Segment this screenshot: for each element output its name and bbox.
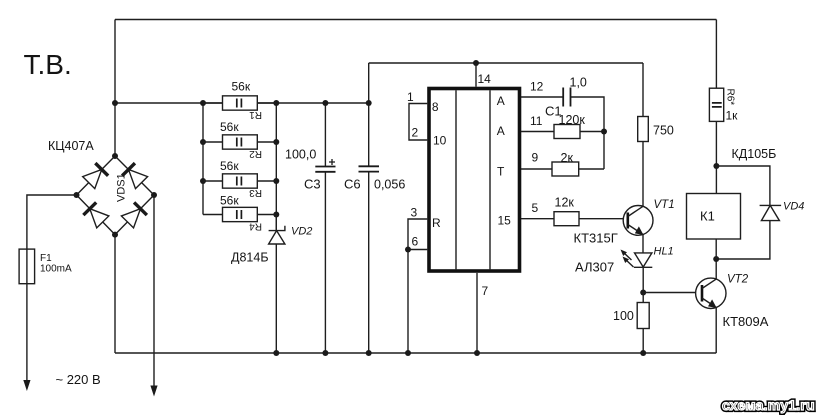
svg-text:R3: R3 — [249, 187, 262, 198]
svg-text:КТ809А: КТ809А — [723, 314, 769, 329]
svg-text:11: 11 — [530, 114, 543, 128]
svg-text:0,056: 0,056 — [374, 178, 405, 192]
resistor 100 — [613, 293, 649, 354]
svg-text:100mA: 100mA — [40, 264, 72, 275]
diode bridge top-left — [82, 163, 108, 189]
svg-text:R2: R2 — [249, 148, 262, 159]
node pin6 junction — [405, 247, 411, 253]
diode bridge bottom-right — [121, 202, 147, 228]
svg-text:КД105Б: КД105Б — [732, 147, 777, 161]
resistor R1 56к — [203, 80, 276, 120]
LED emission arrows — [623, 252, 634, 267]
wire bridge right AC terminal to mains arrow — [153, 195, 155, 386]
svg-text:9: 9 — [532, 151, 539, 165]
resistor 2к on pin 9 — [521, 151, 604, 177]
svg-text:2к: 2к — [561, 151, 574, 165]
svg-text:100: 100 — [613, 309, 634, 323]
node bridge left vertex — [74, 192, 80, 198]
resistor 750 — [638, 63, 674, 206]
svg-text:10: 10 — [433, 134, 447, 148]
svg-text:A: A — [497, 94, 505, 108]
collector lead — [702, 279, 716, 288]
wire zener to ground bus — [275, 244, 277, 353]
resistor R6* 1к — [709, 20, 738, 167]
svg-text:~ 220 В: ~ 220 В — [56, 372, 101, 387]
svg-text:VT2: VT2 — [727, 274, 749, 286]
svg-text:R1: R1 — [249, 109, 262, 120]
base bar — [701, 285, 704, 302]
svg-text:750: 750 — [653, 124, 674, 138]
svg-text:КТ315Г: КТ315Г — [574, 231, 618, 246]
svg-text:15: 15 — [498, 214, 512, 228]
node relay bottom junction — [713, 256, 719, 262]
svg-text:схема.my1.ru: схема.my1.ru — [722, 397, 815, 413]
capacitor C1 1,0 on pin 12 — [521, 76, 604, 170]
svg-text:Д814Б: Д814Б — [231, 251, 269, 265]
node R3 right — [273, 178, 279, 184]
wire pins 1-2 bracket — [409, 104, 427, 141]
emitter arrow — [635, 226, 644, 235]
node C3 ground — [322, 350, 328, 356]
wire resistor column right — [275, 103, 277, 231]
svg-text:12к: 12к — [555, 196, 575, 210]
node VD2 ground — [273, 350, 279, 356]
svg-text:Т.В.: Т.В. — [24, 49, 72, 80]
svg-text:56к: 56к — [232, 80, 251, 94]
relay K1 — [687, 166, 741, 259]
wire fuse to mains arrow — [26, 284, 28, 381]
svg-text:VD2: VD2 — [291, 226, 312, 238]
svg-text:8: 8 — [432, 100, 439, 114]
wire ground bus — [115, 352, 716, 354]
zener cathode bar with hook — [269, 226, 285, 231]
wire pin 7 to ground — [476, 273, 478, 353]
mains arrow left — [23, 380, 30, 391]
node R4 right — [273, 212, 279, 218]
svg-text:1к: 1к — [726, 109, 739, 123]
IC timer chip — [429, 89, 520, 272]
svg-text:120к: 120к — [559, 113, 586, 127]
svg-text:R4: R4 — [249, 220, 262, 231]
svg-text:VD4: VD4 — [783, 201, 804, 213]
svg-text:7: 7 — [482, 284, 489, 298]
resistor R3 56к — [203, 159, 276, 198]
resistor R4 56к — [203, 194, 276, 232]
transistor VT1 КТ315Г — [574, 199, 675, 246]
LED HL1 АЛ307 — [575, 246, 674, 293]
diode bridge bottom-left — [83, 202, 109, 228]
emitter arrow — [708, 299, 717, 308]
node bridge right vertex — [151, 192, 157, 198]
node R1 left — [200, 100, 206, 106]
node pin3-6 ground — [405, 350, 411, 356]
node pin7 ground — [474, 350, 480, 356]
IC body — [429, 89, 520, 272]
wire left vertical from top bus to bridge + terminal — [114, 20, 116, 157]
svg-text:100,0: 100,0 — [285, 148, 316, 162]
zener diode VD2 Д814Б — [231, 215, 312, 354]
capacitor C3 100,0 electrolytic — [285, 103, 336, 353]
wire junction to VD4 top — [716, 166, 770, 205]
fuse F1 — [19, 249, 72, 284]
wire bridge left AC terminal to fuse — [27, 195, 77, 249]
svg-text:АЛ307: АЛ307 — [575, 260, 614, 275]
transistor VT2 КТ809А — [696, 259, 769, 353]
wire pin 14 to upper rail — [475, 63, 477, 87]
svg-text:1,0: 1,0 — [570, 76, 587, 90]
svg-text:A: A — [497, 124, 505, 138]
wire resistor column left — [202, 103, 204, 215]
bridge rectifier VDS1 КЦ407А — [48, 139, 157, 238]
svg-text:R: R — [432, 216, 441, 230]
svg-text:К1: К1 — [700, 209, 715, 224]
svg-text:1: 1 — [407, 90, 414, 104]
node bridge bottom vertex — [112, 232, 118, 238]
node bridge top vertex — [112, 153, 118, 159]
svg-text:C6: C6 — [344, 177, 361, 192]
node R2 right — [273, 139, 279, 145]
node R3 left — [200, 178, 206, 184]
diode bridge top-right — [122, 163, 148, 189]
svg-text:T: T — [497, 165, 505, 179]
wire bridge bottom to ground bus — [114, 235, 116, 353]
resistor 12к on pin 5 — [521, 196, 628, 226]
IC inner column lines — [456, 90, 490, 269]
node relay top junction — [713, 163, 719, 169]
wire upper rail y=63 to pin14 and 750 — [369, 62, 643, 64]
mains arrow right — [150, 386, 157, 397]
resistor 120к on pin 11 — [521, 113, 604, 139]
svg-text:6: 6 — [412, 235, 419, 249]
svg-text:2: 2 — [412, 126, 419, 140]
wire emitter to ground bus — [715, 308, 717, 354]
node 100 ground — [640, 350, 646, 356]
emitter lead — [702, 298, 716, 308]
base bar — [626, 213, 629, 229]
node junction pin14 on upper rail — [473, 60, 479, 66]
svg-text:56к: 56к — [220, 120, 239, 134]
emitter lead — [628, 225, 643, 235]
svg-text:56к: 56к — [220, 194, 239, 208]
wire VT1 emitter to LED — [642, 235, 644, 253]
bridge diamond wires — [77, 156, 155, 235]
node R2 left — [200, 139, 206, 145]
svg-text:12: 12 — [530, 80, 544, 94]
collector lead — [628, 206, 643, 216]
svg-text:14: 14 — [478, 72, 492, 86]
diode VD4 КД105Б — [716, 201, 804, 260]
svg-text:C3: C3 — [304, 177, 321, 192]
resistor R2 56к — [203, 120, 276, 159]
svg-text:VT1: VT1 — [654, 199, 675, 211]
svg-text:R6*: R6* — [725, 89, 736, 106]
svg-text:F1: F1 — [40, 253, 52, 264]
wire collector up — [715, 259, 717, 279]
svg-text:5: 5 — [532, 201, 539, 215]
svg-text:VDS1: VDS1 — [116, 173, 128, 202]
zener triangle — [269, 231, 285, 244]
wire junction to VT2 base — [643, 292, 702, 294]
node C6 ground — [366, 350, 372, 356]
node LED / VT2 base junction — [640, 290, 646, 296]
node C3 top — [322, 100, 328, 106]
svg-text:КЦ407А: КЦ407А — [48, 139, 94, 153]
node C6 rail junction — [366, 100, 372, 106]
svg-text:HL1: HL1 — [654, 246, 674, 258]
wire top supply bus — [115, 19, 716, 21]
wire R4 node to zener — [275, 215, 277, 231]
node R1 right — [273, 100, 279, 106]
capacitor C6 0,056 — [344, 63, 405, 353]
svg-text:3: 3 — [411, 206, 418, 220]
svg-text:56к: 56к — [220, 159, 239, 173]
label + polarity — [329, 159, 335, 165]
wire pins 3-6 bracket to ground — [408, 219, 427, 353]
node junction positive rail / bridge — [112, 100, 118, 106]
node feedback junction — [601, 129, 607, 135]
wire positive rail y=103 — [115, 102, 369, 104]
